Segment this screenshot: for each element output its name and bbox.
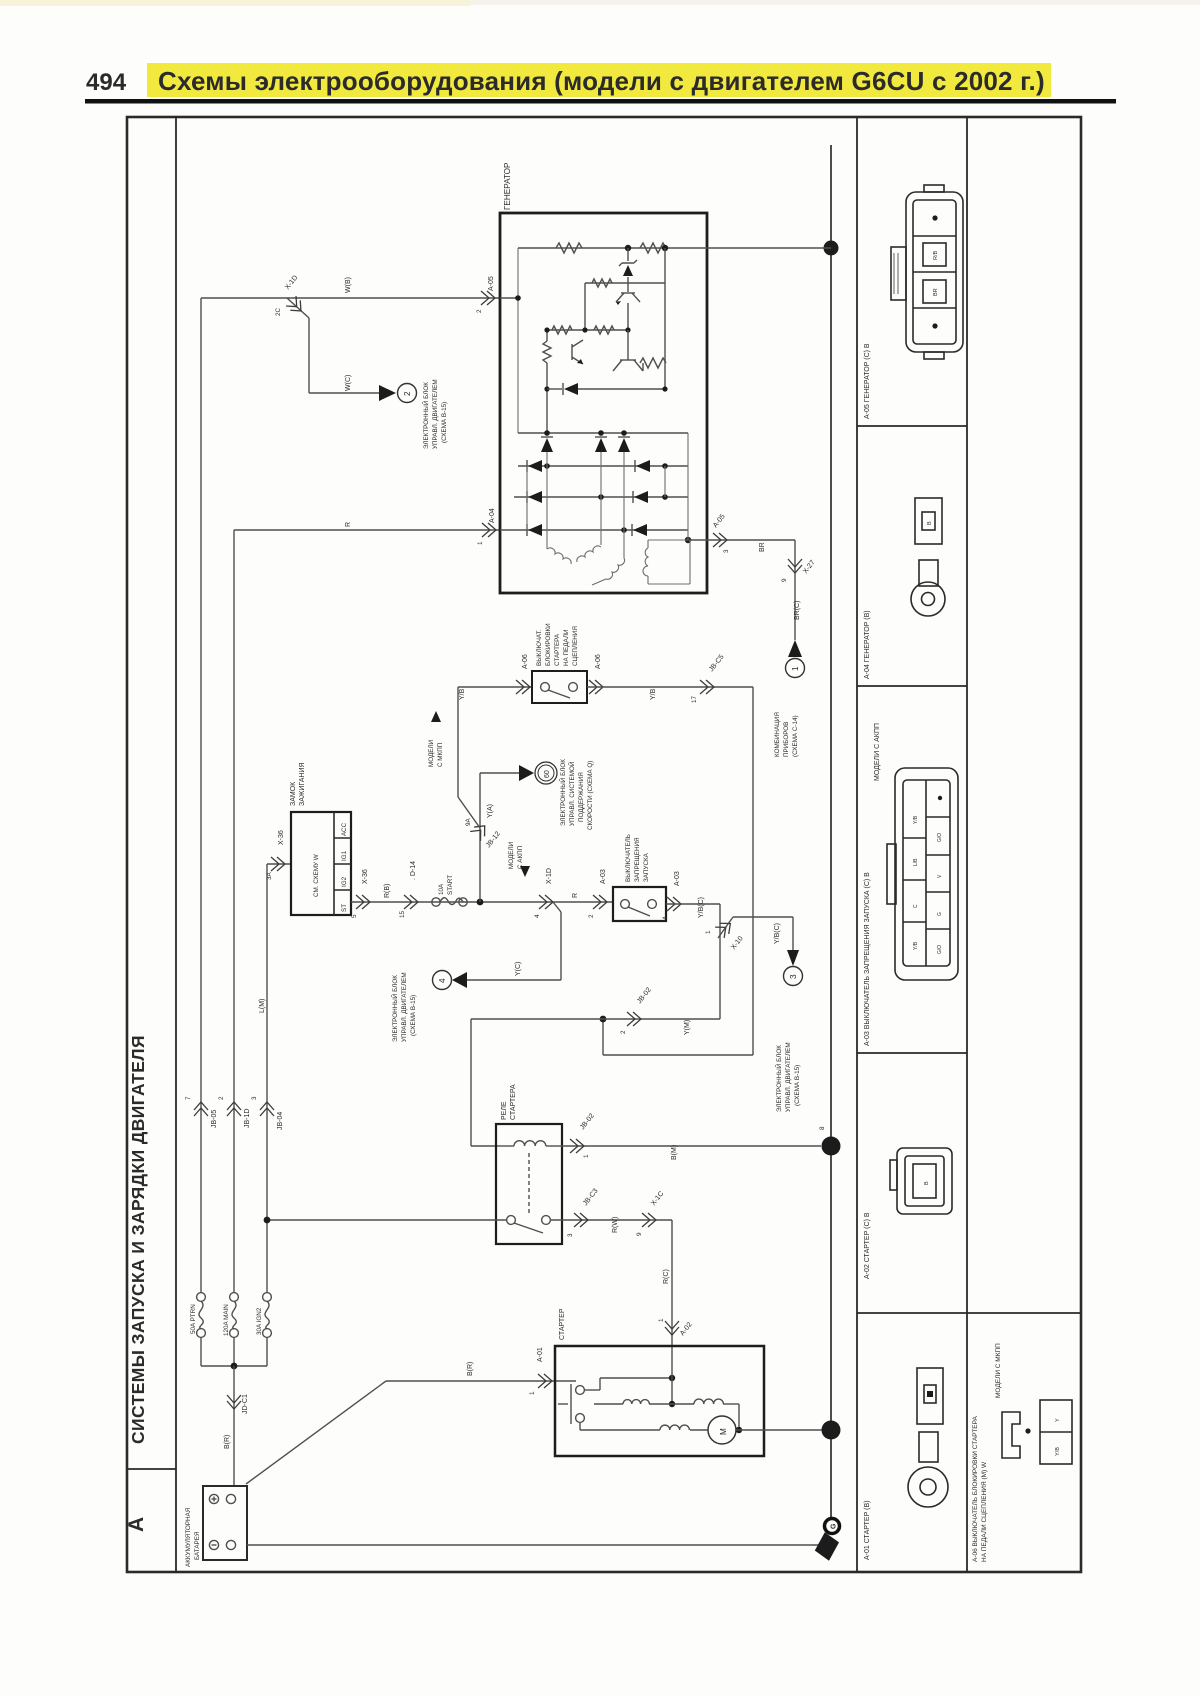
rotor field coil [643,548,648,576]
svg-text:РЕЛЕ: РЕЛЕ [501,1101,508,1120]
svg-text:B: B [924,1181,930,1185]
svg-text:JB-1D: JB-1D [244,1109,251,1128]
wire vertical 50A branch [200,298,202,1293]
wire L(M) to ignition [267,863,291,865]
svg-text:УПРАВЛ. ДВИГАТЕЛЕМ: УПРАВЛ. ДВИГАТЕЛЕМ [785,1042,792,1112]
svg-text:W(B): W(B) [345,277,352,293]
hold-in coil [694,1399,723,1404]
diodes up row [541,438,553,452]
rail 497 [514,496,688,498]
svg-text:А-06: А-06 [522,654,529,669]
transistor Q1 [621,292,635,294]
svg-text:А-06: А-06 [595,654,602,669]
relay feed wire from 30A [267,1219,506,1221]
svg-text:BR: BR [759,542,766,552]
coil wire to bus [562,1145,821,1147]
svg-text:494: 494 [86,69,127,96]
svg-text:ЗАМОК: ЗАМОК [290,781,297,806]
svg-text:Y/B: Y/B [459,688,466,700]
battery positive heavy cable diagonal [246,1381,386,1484]
svg-text:МОДЕЛИ: МОДЕЛИ [508,841,515,869]
relay contacts [507,1216,551,1233]
svg-text:УПРАВЛ. ДВИГАТЕЛЕМ: УПРАВЛ. ДВИГАТЕЛЕМ [401,972,408,1042]
svg-text:. D-14: . D-14 [410,861,417,880]
svg-text:А-05: А-05 [488,276,495,291]
svg-text:СТАРТЕР: СТАРТЕР [559,1308,566,1340]
svg-text:2: 2 [476,309,483,313]
svg-text:ВЫКЛЮЧАТ.: ВЫКЛЮЧАТ. [536,629,543,666]
svg-text:(СХЕМА В-15): (СХЕМА В-15) [410,995,417,1036]
svg-text:МОДЕЛИ С АКПП: МОДЕЛИ С АКПП [874,723,881,781]
svg-text:JD-С1: JD-С1 [242,1394,249,1414]
svg-text:СИСТЕМЫ ЗАПУСКА И ЗАРЯДКИ ДВИГ: СИСТЕМЫ ЗАПУСКА И ЗАРЯДКИ ДВИГАТЕЛЯ [128,1035,148,1444]
battery negative bottom wire [247,1544,820,1546]
svg-text:СКОРОСТИ (СХЕМА Q): СКОРОСТИ (СХЕМА Q) [587,761,594,830]
svg-text:JB-04: JB-04 [277,1112,284,1130]
svg-text:1: 1 [529,1391,536,1395]
branch to ECU 4 [553,902,561,912]
svg-text:2: 2 [403,391,412,396]
connector JB-05 [194,1102,208,1116]
svg-text:G/O: G/O [937,833,943,842]
transistor Q2 [571,344,573,360]
svg-text:А-04: А-04 [489,508,496,523]
ignition switch box [291,812,351,915]
svg-text:А-02 СТАРТЕР (С) В: А-02 СТАРТЕР (С) В [864,1212,871,1279]
A-06 right wire to JB-C5 [587,686,753,688]
svg-text:BR: BR [933,288,939,296]
resistor right mid [640,358,666,368]
svg-text:IG1: IG1 [341,850,348,861]
connector A-03 right [667,897,681,911]
svg-text:1: 1 [583,1154,590,1158]
svg-text:15: 15 [399,910,406,918]
svg-text:БЛОКИРОВКИ: БЛОКИРОВКИ [545,623,552,666]
svg-text:X-1D: X-1D [546,868,553,884]
svg-text:9: 9 [781,578,788,582]
svg-text:(СХЕМА С-14): (СХЕМА С-14) [792,715,799,757]
rectifier top rail [518,432,688,434]
svg-text:5: 5 [351,914,358,918]
svg-text:G/O: G/O [937,945,943,954]
connector X-36 left [271,857,285,871]
battery [203,1486,247,1560]
fuse 50A [197,1293,206,1338]
svg-text:1: 1 [658,1318,665,1322]
svg-text:ЭЛЕКТРОННЫЙ БЛОК: ЭЛЕКТРОННЫЙ БЛОК [558,759,567,826]
svg-text:Y(M): Y(M) [684,1020,691,1035]
svg-text:М: М [719,1428,728,1435]
svg-text:НА ПЕДАЛИ: НА ПЕДАЛИ [563,629,570,666]
fuse 10A START [432,898,467,906]
svg-text:ЗАПРЕЩЕНИЯ: ЗАПРЕЩЕНИЯ [634,837,641,882]
wire B+ top rail [518,247,707,249]
off-page arrow 2 (engine ECU) [379,385,396,401]
solenoid [576,1386,585,1423]
svg-text:9: 9 [636,1232,643,1236]
svg-text:2: 2 [588,914,595,918]
svg-text:IG2: IG2 [341,876,348,887]
svg-text:ГЕНЕРАТОР: ГЕНЕРАТОР [503,162,512,210]
wire W(B) top horizontal [201,297,501,299]
zener diode [627,248,629,261]
Y(M) horizontal [471,1018,720,1020]
svg-text:А-06 ВЫКЛЮЧАТЕЛЬ БЛОКИРОВКИ СТ: А-06 ВЫКЛЮЧАТЕЛЬ БЛОКИРОВКИ СТАРТЕРА [972,1415,979,1562]
svg-text:X-36: X-36 [362,869,369,884]
svg-text:30A IGN2: 30A IGN2 [256,1307,263,1335]
off-page arrow 1 (instrument cluster) [788,640,802,657]
M/T branch from A-06 [458,686,532,688]
ground key symbol [825,1519,840,1534]
svg-text:3: 3 [723,549,730,553]
svg-text:С МКПП: С МКПП [437,742,444,767]
svg-text:R/B: R/B [933,251,939,261]
junction to cruise ECU [477,899,484,906]
svg-text:Y/B(C): Y/B(C) [698,897,705,918]
svg-text:Y: Y [1055,1418,1061,1422]
motor row [579,1423,581,1430]
svg-text:G: G [831,1523,838,1529]
svg-text:R(C): R(C) [663,1269,670,1284]
svg-text:9А: 9А [465,817,472,826]
rail 531 with R wire entering [500,529,688,531]
X-10 branch to ECU 3 [718,917,733,938]
svg-text:2: 2 [620,1030,627,1034]
main B+ bus [830,145,832,1520]
svg-text:ВЫКЛЮЧАТЕЛЬ: ВЫКЛЮЧАТЕЛЬ [625,834,632,882]
svg-text:(СХЕМА В-15): (СХЕМА В-15) [441,402,448,443]
svg-text:START: START [447,875,454,895]
vertical from A-03 [719,904,721,1019]
svg-text:B(R): B(R) [467,1362,474,1376]
wire vertical 30A branch [266,864,268,1293]
svg-text:УПРАВЛ. СИСТЕМОЙ: УПРАВЛ. СИСТЕМОЙ [567,761,576,826]
connector JB-04 [260,1102,274,1116]
transistor Q3 [620,359,636,361]
svg-text:ЗАПУСКА: ЗАПУСКА [643,852,650,882]
svg-text:СТАРТЕРА: СТАРТЕРА [510,1084,517,1120]
svg-text:ПРИБОРОВ: ПРИБОРОВ [783,722,790,757]
svg-text:СМ. СХЕМУ W: СМ. СХЕМУ W [313,854,320,897]
svg-text:G: G [937,912,943,916]
svg-text:АСС: АСС [341,822,348,836]
svg-text:Y/B: Y/B [1055,1447,1061,1456]
svg-text:А-03: А-03 [674,871,681,886]
header [0,0,1200,104]
svg-text:7: 7 [185,1096,192,1100]
field diode (left pointing) [547,388,562,390]
svg-text:50A PTRN: 50A PTRN [190,1304,197,1334]
exit wire to X-27 [688,539,770,541]
svg-text:КОМБИНАЦИЯ: КОМБИНАЦИЯ [774,712,781,757]
svg-text:Y/B: Y/B [650,688,657,700]
svg-text:4: 4 [662,916,669,920]
svg-text:Схемы электрооборудования (мод: Схемы электрооборудования (модели с двиг… [158,66,1045,96]
connector A-03 left [593,895,607,909]
svg-text:60: 60 [544,770,551,778]
svg-text:2: 2 [218,1096,225,1100]
main ST wire [351,901,613,903]
svg-text:2C: 2C [275,307,282,316]
svg-text:УПРАВЛ. ДВИГАТЕЛЕМ: УПРАВЛ. ДВИГАТЕЛЕМ [432,379,439,449]
svg-text:А-03 ВЫКЛЮЧАТЕЛЬ ЗАПРЕЩЕНИЯ ЗА: А-03 ВЫКЛЮЧАТЕЛЬ ЗАПРЕЩЕНИЯ ЗАПУСКА (С) … [864,872,871,1046]
svg-text:МОДЕЛИ: МОДЕЛИ [428,739,435,767]
relay output wire [551,1219,672,1221]
battery feed wire [233,1366,235,1486]
fuse 120A [230,1293,239,1338]
svg-text:3: 3 [251,1096,258,1100]
rail 466 [518,465,688,467]
right columns [864,185,1072,1562]
svg-text:ЗАЖИГАНИЯ: ЗАЖИГАНИЯ [299,762,306,806]
svg-text:1: 1 [477,541,484,545]
svg-text:БАТАРЕЯ: БАТАРЕЯ [194,1531,201,1560]
connector JD-C1 [227,1395,241,1409]
resistor R-top2 [640,243,666,253]
wire W(B) into box [500,297,518,299]
svg-text:А-01: А-01 [537,1347,544,1362]
svg-text:А: А [125,1517,148,1532]
connector X-1D on ST wire [539,895,553,909]
svg-text:С АКПП: С АКПП [517,845,524,869]
svg-text:R: R [345,522,352,527]
svg-text:B(R): B(R) [224,1435,231,1449]
starter relay box [496,1124,562,1244]
svg-text:3: 3 [567,1233,574,1237]
A-06 clutch switch box [532,671,587,703]
svg-text:Y/B: Y/B [913,815,919,824]
svg-text:АККУМУЛЯТОРНАЯ: АККУМУЛЯТОРНАЯ [185,1507,192,1567]
phase verticals [546,452,548,466]
svg-text:R: R [572,893,579,898]
svg-text:B: B [927,521,933,525]
svg-text:ПОДДЕРЖАНИЯ: ПОДДЕРЖАНИЯ [578,772,585,822]
resistor R-top1 [556,243,582,253]
wire vertical 120A branch [233,530,235,1293]
connector JB-1D [227,1102,241,1116]
relay coil [498,1145,514,1147]
connector X-1D branch diagonal [287,298,309,318]
svg-text:ЭЛЕКТРОННЫЙ БЛОК: ЭЛЕКТРОННЫЙ БЛОК [390,975,399,1042]
svg-text:А-05 ГЕНЕРАТОР (С) В: А-05 ГЕНЕРАТОР (С) В [864,343,871,419]
starter box [555,1346,764,1456]
svg-text:8: 8 [819,1126,826,1130]
main schematic [185,274,820,1567]
svg-text:4: 4 [438,978,447,983]
svg-text:А-03: А-03 [600,869,607,884]
solenoid wiring [585,1389,600,1391]
svg-text:R(B): R(B) [384,884,391,898]
svg-text:W(C): W(C) [345,375,352,391]
svg-text:1: 1 [791,666,800,671]
svg-text:А-04 ГЕНЕРАТОР (В): А-04 ГЕНЕРАТОР (В) [864,610,871,679]
svg-text:JB-05: JB-05 [211,1110,218,1128]
svg-text:C: C [913,904,919,908]
svg-text:ЭЛЕКТРОННЫЙ БЛОК: ЭЛЕКТРОННЫЙ БЛОК [421,382,430,449]
svg-text:СЦЕПЛЕНИЯ: СЦЕПЛЕНИЯ [572,626,579,666]
junction bar above battery [201,1365,267,1367]
relay coil branch [470,1019,472,1146]
connector A-05 to generator [481,291,495,305]
svg-text:BR(C): BR(C) [794,601,801,620]
stator windings Y [547,548,571,564]
connector X-36 right [356,895,370,909]
svg-text:L(M): L(M) [259,999,266,1013]
pull-in coil [594,1403,623,1405]
svg-text:3: 3 [789,974,798,979]
connector D-14 [404,895,418,909]
svg-text:3А: 3А [266,871,273,880]
regulator left rail [517,248,519,433]
JB-12 connector X on vertical [470,821,490,841]
svg-text:МОДЕЛИ С МКПП: МОДЕЛИ С МКПП [995,1343,1002,1398]
fuse 30A [263,1293,272,1338]
svg-text:17: 17 [691,695,698,703]
svg-text:А-01 СТАРТЕР (В): А-01 СТАРТЕР (В) [864,1500,871,1560]
resistor vertical left [546,330,548,341]
svg-text:Y/B: Y/B [913,941,919,950]
svg-text:4: 4 [534,914,541,918]
svg-text:R(W): R(W) [612,1217,619,1233]
svg-text:L/B: L/B [913,858,919,866]
wire R to generator A-04 [234,529,501,531]
svg-text:120A MAIN: 120A MAIN [223,1304,230,1336]
svg-text:B(M): B(M) [671,1145,678,1160]
left column [125,1035,148,1532]
connector A-04 to generator [482,523,496,537]
svg-text:Y(A): Y(A) [487,804,494,818]
regulator mesh wires [585,282,665,284]
svg-text:СТАРТЕРА: СТАРТЕРА [554,633,561,666]
svg-text:НА ПЕДАЛИ СЦЕПЛЕНИЯ (М) W: НА ПЕДАЛИ СЦЕПЛЕНИЯ (М) W [981,1461,988,1562]
svg-text:X-36: X-36 [278,830,285,845]
svg-text:1: 1 [705,930,712,934]
svg-text:Y(C): Y(C) [515,962,522,976]
A-03 inhibitor switch box [613,887,666,921]
svg-text:(СХЕМА В-15): (СХЕМА В-15) [794,1065,801,1106]
svg-text:10А: 10А [438,883,445,895]
svg-text:ST: ST [341,904,348,912]
loop down right [752,687,754,1055]
generator box [500,213,707,593]
svg-text:Y/B(C): Y/B(C) [774,923,781,944]
svg-text:ЭЛЕКТРОННЫЙ БЛОК: ЭЛЕКТРОННЫЙ БЛОК [774,1045,783,1112]
